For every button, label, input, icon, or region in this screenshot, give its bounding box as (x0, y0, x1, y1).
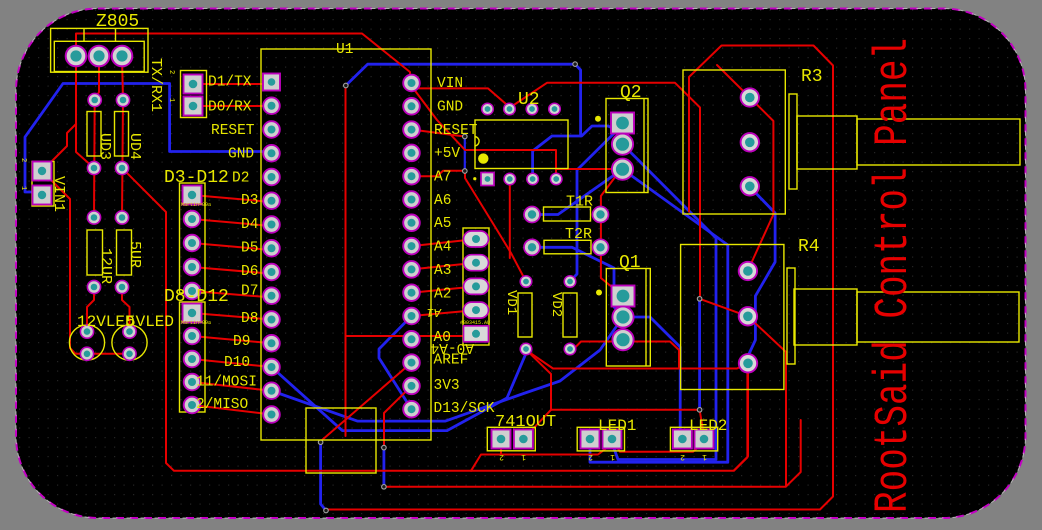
resistor 12UR pads (87, 211, 100, 224)
regulator Z805 pads (66, 46, 87, 67)
svg-text:VD1: VD1 (503, 290, 519, 315)
wire red U1 inner vertical (321, 86, 412, 442)
wire red VD1 pad2 to R4 pad3 (527, 351, 748, 369)
resistor UD4 pads (116, 93, 129, 106)
ic U1 left pads (263, 74, 280, 91)
wire red VD1 junction to 741OUT corner (527, 351, 551, 410)
ic U2 top pads (482, 103, 494, 115)
svg-text:D1/TX: D1/TX (208, 75, 252, 91)
svg-text:D10: D10 (224, 355, 250, 371)
svg-text:D2: D2 (232, 171, 249, 187)
led 5VLED outline (112, 325, 147, 360)
svg-text:Martin=09a: Martin=09a (181, 320, 211, 326)
svg-text:Q2: Q2 (620, 83, 642, 103)
svg-text:VIN1: VIN1 (50, 176, 67, 212)
connector VIN1 pads (33, 162, 52, 181)
svg-text:T1R: T1R (566, 194, 593, 211)
resistor T1R pads (524, 207, 540, 223)
svg-text:U2: U2 (518, 90, 540, 110)
wire red U2 pad2 to Q1 pad1 (509, 179, 511, 258)
pin1 dot Q1 (596, 290, 602, 296)
pin1 dot U2 (478, 153, 488, 163)
wire red A7 pad to via (412, 171, 465, 176)
svg-text:D3: D3 (241, 193, 258, 209)
wire red R4 pad3 down to long bottom line (734, 363, 748, 470)
svg-text:11/MOSI: 11/MOSI (196, 375, 257, 391)
svg-text:Q1: Q1 (619, 253, 641, 273)
wire red Z805 pads down to UD resistors (76, 56, 123, 168)
connector TX/RX1 pads (184, 75, 203, 94)
svg-text:A2: A2 (434, 287, 451, 303)
svg-text:D4: D4 (241, 217, 258, 233)
wire blue A1 dogleg to D13 pad (379, 316, 412, 409)
regulator Z805 outline (51, 28, 148, 72)
svg-text:2/MISO: 2/MISO (196, 397, 248, 413)
resistor UD3 outline (87, 112, 101, 157)
wire blue Q1 pad2 to LED2 pad1 (623, 317, 682, 437)
wire blue T2R pad2 to Q1 pad2 (532, 247, 623, 317)
wire blue RESET jumper between vias (464, 137, 466, 171)
connector 741OUT pads (492, 430, 511, 449)
resistor T2R outline (544, 240, 591, 254)
wire red A-row stubs to A0-A4 header (346, 239, 477, 341)
svg-text:R4: R4 (798, 237, 820, 257)
svg-text:LED2: LED2 (689, 417, 727, 435)
wire blue GND net VIN1 to U1 (25, 84, 272, 193)
resistor 12UR outline (87, 230, 103, 275)
svg-text:VIN: VIN (437, 76, 463, 92)
svg-text:741OUT: 741OUT (495, 413, 556, 432)
wire red board loop bottom to R3 ring (326, 46, 833, 510)
svg-text:+5V: +5V (434, 146, 460, 162)
svg-text:A0-A4: A0-A4 (430, 339, 474, 355)
svg-text:RESET: RESET (211, 123, 255, 139)
wire blue U1 top to dot near U2 (346, 64, 575, 85)
ic U1 right pads (403, 75, 420, 92)
svg-text:D8: D8 (241, 311, 258, 327)
svg-text:5UR: 5UR (126, 241, 143, 268)
svg-text:A6: A6 (434, 193, 451, 209)
transistor Q1 pads (612, 286, 635, 307)
wire blue via to via below U1 (382, 448, 385, 487)
wire red D0/RX row (193, 105, 272, 107)
pin1 dot Q2 (595, 116, 601, 122)
wire blue T1R pad1 to Q2 pad3 (532, 169, 623, 214)
wire blue Q2 pad2 to LED1 pad2 (612, 144, 716, 459)
wire red RESET net to VD1 (412, 130, 527, 282)
resistor T1R outline (544, 207, 591, 221)
potentiometer R4 outline (681, 245, 784, 390)
svg-text:2: 2 (167, 70, 175, 74)
svg-text:1: 1 (167, 98, 175, 102)
wire red T1R pad2 to Q2 pad3 (601, 172, 623, 296)
svg-text:D7: D7 (241, 284, 258, 300)
header D3-D7 outline (180, 183, 206, 293)
ic U1 outline (261, 49, 431, 440)
wire red header1 stubs (192, 195, 272, 297)
wire blue Q2 pad1 down to VD2 pad1 (570, 125, 623, 282)
wire red D1/TX row (193, 83, 272, 85)
svg-text:2: 2 (588, 452, 593, 461)
wire red 3V3 pad down to via (384, 386, 412, 448)
ic U2 outline (475, 120, 568, 169)
resistor 5UR outline (117, 230, 132, 275)
svg-text:A4: A4 (434, 240, 451, 256)
svg-text:A5: A5 (434, 216, 451, 232)
svg-text:D5: D5 (241, 241, 258, 257)
header D8-D12 pads (183, 304, 202, 323)
resistor UD3 pads (88, 93, 101, 106)
svg-text:2: 2 (680, 452, 685, 461)
svg-text:A1: A1 (427, 305, 442, 319)
wire red Z805 pad1 along top to VIN pad (76, 34, 410, 85)
header D8-D12 outline (180, 302, 206, 412)
svg-text:D8-D12: D8-D12 (164, 287, 229, 307)
wire blue dot down right of U2 (575, 64, 581, 136)
connector TX/RX1 outline (181, 71, 207, 118)
led LED2 outline (670, 427, 717, 451)
svg-text:2: 2 (19, 158, 27, 162)
svg-text:U1: U1 (336, 42, 353, 58)
wire blue U2 pad to Q2 pad1 (533, 126, 615, 179)
connector 741OUT outline (487, 427, 535, 451)
via dots (344, 83, 349, 88)
resistor VD2 outline (563, 293, 577, 337)
resistor VD2 pads (564, 276, 576, 288)
svg-text:D13/SCK: D13/SCK (434, 401, 495, 417)
transistor Q2 pads (611, 113, 634, 134)
svg-text:T2R: T2R (565, 226, 592, 243)
connector VIN1 outline (32, 162, 54, 207)
connector outline below U1 (306, 408, 376, 473)
svg-text:1: 1 (19, 186, 27, 190)
transistor Q1 outline (606, 269, 650, 367)
svg-text:VD2: VD2 (548, 292, 564, 317)
resistor T2R pads (524, 239, 540, 255)
wire blue D10 V-route to VD1 pad2 (272, 351, 528, 431)
wire blue via to via right side (698, 299, 701, 410)
resistor UD4 outline (115, 112, 129, 157)
resistor 5UR pads (115, 211, 128, 224)
wire red VD2 pad2 to Q1 pad3 rail (572, 342, 679, 369)
svg-text:5VLED: 5VLED (126, 313, 174, 331)
svg-text:12UR: 12UR (97, 248, 114, 284)
led LED1 pads (581, 430, 600, 449)
svg-text:1: 1 (702, 452, 707, 461)
wire red TX/RX1 pad1 down left side to LED area (42, 171, 130, 354)
svg-text:Z805: Z805 (96, 12, 139, 32)
svg-text:UD3: UD3 (96, 133, 113, 160)
svg-text:RESET: RESET (434, 123, 478, 139)
wire red R3 pad1 stub (717, 65, 750, 98)
svg-text:A3: A3 (434, 263, 451, 279)
header D3-D7 pads (183, 186, 202, 205)
wire red UD/UR chains to LEDs (87, 100, 130, 332)
led 5VLED pads (123, 325, 136, 338)
svg-text:R3: R3 (801, 67, 823, 87)
svg-text:D3-D12: D3-D12 (164, 168, 229, 188)
wire red VIN diag to +5V rail to Q2 pad3 (410, 84, 623, 179)
wire red VIN pad to U2 pad and on to R4 pad2 (410, 83, 748, 439)
svg-text:D6: D6 (241, 264, 258, 280)
led LED1 outline (577, 427, 624, 451)
svg-text:UD4: UD4 (126, 133, 143, 160)
svg-text:D9: D9 (233, 334, 250, 350)
svg-text:LED1: LED1 (598, 417, 636, 435)
potentiometer R3 outline (683, 70, 785, 214)
potentiometer R4 pads (739, 262, 757, 280)
wire red header2 stubs (192, 313, 272, 415)
header A0-A4 outline (463, 228, 489, 345)
svg-text:D0/RX: D0/RX (208, 100, 252, 116)
svg-text:2: 2 (499, 452, 504, 461)
led 12VLED pads (80, 325, 93, 338)
led LED2 pads (673, 430, 692, 449)
svg-text:GND: GND (437, 100, 463, 116)
wire red VIN1 pad1 up to Z805 column (42, 124, 76, 171)
resistor VD1 pads (520, 276, 532, 288)
svg-text:Martin=09a: Martin=09a (181, 202, 211, 208)
wire blue D11 V-route to Q1 pad2 (272, 317, 624, 421)
potentiometer R3 pads (741, 88, 759, 106)
svg-text:RootSaid Control Panel: RootSaid Control Panel (867, 38, 921, 513)
transistor Q2 outline (606, 99, 648, 193)
wire blue Q2 pad3 to LED1 pad1 (590, 169, 728, 462)
svg-text:#003415.AU: #003415.AU (460, 320, 490, 326)
svg-text:TX/RX1: TX/RX1 (147, 58, 164, 112)
wire red R3 pad1 to R4 pad1 (748, 98, 774, 271)
header A0-A4 pads (464, 231, 489, 247)
wire red TX/RX1 pad2 along bottom to R4 pad3 (122, 168, 747, 471)
svg-text:GND: GND (228, 147, 254, 163)
led 12VLED outline (69, 325, 104, 360)
wire red long line from via to right riser (384, 316, 801, 487)
wire blue dot below U1 down to bottom dot (321, 442, 326, 510)
svg-text:1: 1 (521, 452, 526, 461)
svg-text:A7: A7 (434, 170, 451, 186)
svg-text:1: 1 (610, 452, 615, 461)
svg-text:3V3: 3V3 (434, 378, 460, 394)
wire blue R3 pad3 to R4 pad3 (748, 186, 775, 356)
resistor VD1 outline (518, 293, 532, 337)
wire red 741OUT to LED line (471, 439, 704, 471)
ic U2 bottom pads (481, 173, 494, 186)
